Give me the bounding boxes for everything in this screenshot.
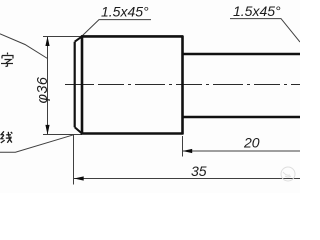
chamfer callout right: underline and leader	[230, 19, 300, 42]
dimension 20: arrow	[183, 149, 193, 153]
shaft outline: step right edge	[181, 36, 184, 135]
shaft outline: small shaft top edge	[183, 53, 301, 56]
shaft outline: large cylinder bottom edge	[81, 132, 183, 135]
chamfer callout top-left: underline and leader	[82, 20, 151, 36]
watermark doodle	[281, 167, 295, 181]
shaft outline: left end face	[74, 42, 76, 128]
svg-text:20: 20	[243, 135, 260, 151]
leader to dimension number (label 字)	[0, 34, 48, 59]
shaft outline: small shaft bottom edge	[183, 116, 301, 119]
shaft outline: large cylinder top edge	[81, 35, 183, 38]
svg-text:1.5x45°: 1.5x45°	[101, 4, 149, 20]
label text 字 (hand-drawn strokes)	[1, 53, 13, 67]
dimension phi36: bottom arrow	[45, 125, 49, 135]
label text 线 (hand-drawn strokes)	[1, 131, 13, 143]
shaft outline: chamfer edge line	[81, 36, 84, 135]
dimension phi36: top extension line	[43, 36, 82, 38]
dimension 20: dimension line	[183, 150, 300, 152]
centerline (dash-dot axis)	[65, 84, 94, 86]
svg-text:1.5x45°: 1.5x45°	[233, 3, 281, 19]
dimension phi36: bottom extension line	[43, 134, 82, 136]
dimension 35: extension line	[73, 135, 75, 185]
dimension phi36: dimension line	[47, 37, 49, 135]
shaft outline: top-left chamfer diagonal	[75, 36, 82, 41]
leader to dimension line (label 线)	[0, 135, 74, 152]
shaft outline: bottom-left chamfer diagonal	[75, 127, 82, 133]
svg-text:φ36: φ36	[35, 76, 51, 103]
dimension 35: arrow	[74, 176, 84, 180]
dimension 20: extension line	[182, 136, 184, 157]
dimension phi36: top arrow	[45, 36, 49, 46]
dimension 35: dimension line	[74, 178, 300, 180]
svg-text:35: 35	[191, 163, 207, 179]
